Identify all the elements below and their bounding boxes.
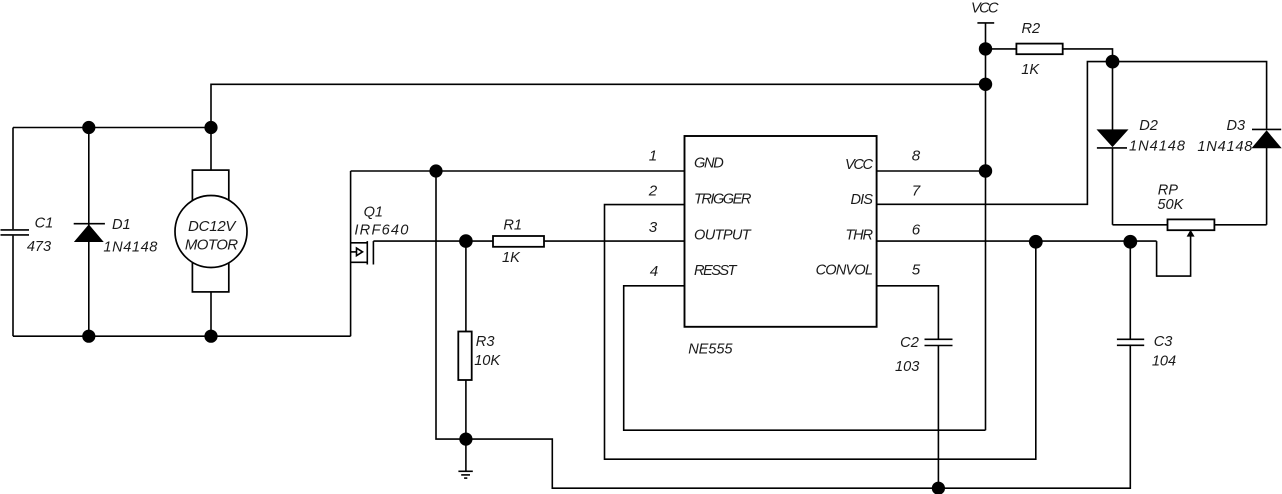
- svg-text:1: 1: [649, 148, 657, 165]
- svg-text:5: 5: [912, 262, 921, 279]
- svg-text:10K: 10K: [474, 353, 501, 369]
- diode D2: [1097, 62, 1127, 225]
- wire pin5 CONVOL: [877, 286, 939, 339]
- potentiometer RP 50K: [1113, 219, 1267, 230]
- svg-text:473: 473: [27, 239, 51, 255]
- svg-text:103: 103: [895, 359, 919, 375]
- svg-text:VCC: VCC: [971, 1, 999, 17]
- svg-text:4: 4: [650, 263, 658, 280]
- power VCC terminal: [977, 23, 994, 430]
- node junction dot left-bottom: [82, 330, 95, 343]
- resistor R2: [986, 44, 1113, 62]
- svg-text:DIS: DIS: [851, 192, 874, 208]
- svg-text:8: 8: [912, 148, 921, 165]
- wire top-left horizontal: [13, 127, 211, 129]
- wire pin2 TRIGGER loop: [605, 205, 1036, 460]
- svg-text:THR: THR: [845, 228, 873, 244]
- svg-text:6: 6: [912, 222, 921, 239]
- svg-text:C3: C3: [1154, 334, 1173, 350]
- svg-text:R2: R2: [1021, 21, 1040, 37]
- node junction dot THR-TRIGGER: [1029, 235, 1043, 249]
- svg-text:NE555: NE555: [688, 342, 733, 358]
- svg-text:1K: 1K: [1021, 62, 1040, 78]
- svg-text:MOTOR: MOTOR: [185, 237, 238, 254]
- node junction dot gate/R1/R3: [459, 234, 473, 248]
- wire ground rail to bottom bus: [466, 346, 1130, 489]
- wire C1 bottom lead: [12, 236, 14, 337]
- svg-text:IRF640: IRF640: [354, 222, 408, 238]
- wire GND pin1 line: [351, 170, 685, 172]
- diode D1: [74, 128, 105, 337]
- node junction dot THR-C3: [1123, 235, 1137, 249]
- svg-text:CONVOL: CONVOL: [816, 263, 873, 279]
- wire pin7 DIS loop: [877, 62, 1113, 205]
- svg-text:RESST: RESST: [694, 263, 738, 279]
- wire bottom-left horizontal: [13, 335, 351, 337]
- svg-text:1K: 1K: [502, 250, 521, 266]
- svg-text:C2: C2: [900, 335, 919, 351]
- node junction dot motor-top: [204, 121, 217, 134]
- resistor R3: [458, 241, 471, 439]
- node junction dot VCC-pin8: [979, 164, 992, 177]
- capacitor C3: [1117, 241, 1144, 345]
- wire C1 top lead: [12, 128, 14, 230]
- svg-text:1N4148: 1N4148: [1129, 139, 1186, 155]
- svg-text:2: 2: [648, 183, 658, 200]
- RP wiper arrow: [1157, 231, 1194, 276]
- capacitor C1: [1, 230, 30, 235]
- svg-text:Q1: Q1: [364, 205, 383, 221]
- svg-text:1N4148: 1N4148: [1197, 139, 1253, 155]
- wire pin6 THR line: [877, 240, 1157, 242]
- wire gate to R1 node: [373, 240, 466, 242]
- svg-text:104: 104: [1152, 354, 1176, 370]
- svg-text:C1: C1: [35, 216, 54, 232]
- wire GND down to ground rail: [436, 171, 466, 439]
- svg-text:7: 7: [912, 183, 921, 200]
- wire pin4 RESST loop: [624, 286, 986, 430]
- node junction dot DIS-R2-D2: [1106, 55, 1120, 69]
- svg-text:DC12V: DC12V: [188, 218, 237, 235]
- wire pin8 VCC: [877, 170, 986, 172]
- diode D3: [1252, 129, 1281, 224]
- node junction dot GND line: [429, 164, 442, 177]
- svg-text:TRIGGER: TRIGGER: [694, 192, 752, 208]
- node junction dot motor-bottom: [204, 330, 217, 343]
- svg-text:1N4148: 1N4148: [103, 240, 158, 256]
- node junction dot VCC-R2: [979, 42, 992, 55]
- node junction dot VCC-motor: [979, 78, 992, 91]
- svg-text:D2: D2: [1139, 118, 1158, 134]
- wire top to D3: [1113, 62, 1267, 129]
- wire motor bottom lead: [210, 292, 212, 336]
- svg-text:R3: R3: [476, 334, 495, 350]
- node junction dot left-top: [82, 121, 95, 134]
- svg-text:VCC: VCC: [845, 157, 873, 173]
- node junction dot C2 bottom: [932, 482, 945, 494]
- svg-text:R1: R1: [503, 217, 522, 233]
- svg-text:3: 3: [649, 219, 658, 236]
- resistor R1: [466, 236, 685, 247]
- ground symbol: [458, 439, 472, 478]
- svg-text:OUTPUT: OUTPUT: [694, 228, 752, 244]
- svg-text:D1: D1: [112, 217, 131, 233]
- svg-text:50K: 50K: [1157, 197, 1184, 213]
- IC U1 NE555 box: [685, 136, 877, 327]
- motor M DC12V: [175, 170, 247, 292]
- transistor Q1 IRF640: [351, 171, 374, 336]
- svg-text:GND: GND: [694, 156, 724, 172]
- capacitor C2: [925, 339, 953, 488]
- svg-text:D3: D3: [1226, 118, 1245, 134]
- wire motor top to VCC rail: [211, 84, 986, 170]
- node junction dot ground: [459, 433, 472, 446]
